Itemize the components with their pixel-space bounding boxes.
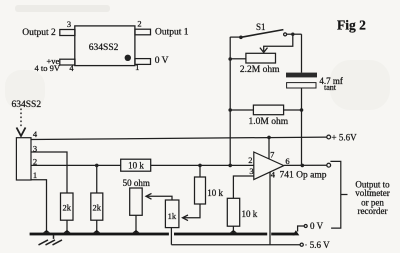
svg-text:6: 6 — [285, 156, 289, 166]
svg-text:3: 3 — [249, 166, 253, 176]
svg-text:10 k: 10 k — [242, 209, 258, 219]
svg-text:recorder: recorder — [358, 206, 388, 216]
svg-text:tant: tant — [324, 83, 337, 92]
svg-text:0 V: 0 V — [310, 221, 324, 231]
svg-text:2: 2 — [33, 156, 37, 166]
svg-text:4 to 9V: 4 to 9V — [35, 63, 61, 73]
svg-text:3: 3 — [67, 19, 71, 29]
svg-text:634SS2: 634SS2 — [89, 43, 119, 53]
svg-text:3: 3 — [33, 144, 37, 154]
svg-text:1.0M ohm: 1.0M ohm — [249, 117, 289, 127]
svg-text:10 k: 10 k — [207, 188, 223, 198]
svg-text:· 5.6 V: · 5.6 V — [305, 240, 331, 250]
svg-text:2k: 2k — [62, 203, 71, 213]
svg-text:2: 2 — [137, 18, 141, 28]
svg-text:50 ohm: 50 ohm — [123, 178, 150, 188]
svg-text:2k: 2k — [92, 203, 101, 213]
svg-text:Output 1: Output 1 — [155, 28, 189, 38]
svg-text:4: 4 — [271, 169, 276, 179]
svg-text:Fig 2: Fig 2 — [337, 18, 366, 33]
svg-text:Output 2: Output 2 — [22, 28, 56, 38]
svg-text:1: 1 — [33, 170, 37, 180]
svg-text:+ 5.6V: + 5.6V — [332, 132, 358, 142]
svg-text:S1: S1 — [256, 22, 266, 32]
svg-text:2: 2 — [248, 155, 252, 165]
svg-text:634SS2: 634SS2 — [12, 100, 42, 110]
svg-text:741 Op amp: 741 Op amp — [280, 171, 327, 181]
svg-text:0 V: 0 V — [155, 56, 169, 66]
svg-text:7: 7 — [270, 150, 274, 160]
svg-text:1k: 1k — [168, 211, 177, 221]
svg-text:1: 1 — [135, 62, 139, 72]
svg-text:2.2M ohm: 2.2M ohm — [240, 65, 280, 75]
svg-text:10 k: 10 k — [128, 161, 144, 171]
